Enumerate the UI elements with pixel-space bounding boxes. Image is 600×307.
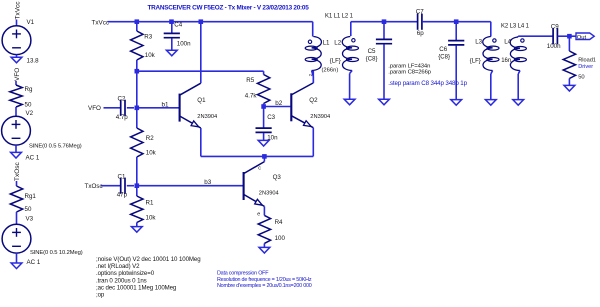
svg-text:Out: Out (577, 35, 587, 41)
svg-text:V3: V3 (26, 216, 34, 223)
capacitor C9 (series output) (552, 28, 554, 44)
svg-text:;ac dec 100001 1Meg 100Meg: ;ac dec 100001 1Meg 100Meg (96, 284, 176, 291)
svg-text:{C8}: {C8} (366, 57, 378, 63)
svg-text:6p: 6p (417, 30, 424, 37)
svg-text:TxVcc: TxVcc (92, 19, 110, 26)
svg-text:10k: 10k (145, 52, 156, 59)
wire C9 to out node (558, 35, 570, 37)
svg-text:Rload1: Rload1 (578, 58, 596, 64)
svg-text:100: 100 (275, 235, 286, 242)
svg-text:R5: R5 (246, 77, 254, 84)
wire C2 to node b1 (127, 107, 134, 109)
ground below C3 (258, 140, 269, 146)
phase dot L3 (493, 39, 496, 42)
transistor Q1 (179, 94, 181, 122)
wire TxVcc rail (108, 21, 313, 23)
svg-text:47p: 47p (117, 192, 128, 199)
svg-text:b3: b3 (204, 179, 212, 186)
svg-text:b1: b1 (162, 101, 170, 108)
wire Q3 collector to emitter rail (263, 156, 265, 161)
svg-text:{LF}: {LF} (470, 59, 481, 65)
ground below C5 (379, 99, 390, 105)
wire Q2 collector to L1 (312, 71, 314, 83)
wire L2 bottom to ground (350, 71, 353, 74)
resistor R2 (136, 108, 138, 128)
svg-text:2N3904: 2N3904 (197, 114, 217, 120)
svg-text:Driver: Driver (578, 64, 593, 70)
capacitor C6 (455, 22, 457, 41)
resistor Rload1 (568, 36, 570, 51)
svg-text:Data compression OFF: Data compression OFF (217, 271, 269, 277)
node on rail at C4 (169, 19, 174, 24)
svg-text:10n: 10n (267, 135, 278, 142)
svg-text:C5: C5 (368, 48, 376, 55)
svg-text:16n: 16n (501, 58, 511, 64)
wire b3 to Q3 base (137, 185, 243, 187)
svg-text:K1 L1 L2 1: K1 L1 L2 1 (325, 13, 354, 19)
ground below L4 (513, 100, 524, 106)
wire Rg to V2 (15, 107, 17, 116)
svg-text:Q2: Q2 (309, 97, 318, 104)
svg-text:C2: C2 (118, 96, 126, 103)
svg-text:C6: C6 (439, 46, 447, 53)
capacitor C7 (series) (417, 14, 419, 30)
wire b2 to Q2 base (264, 106, 291, 108)
node at output (567, 34, 572, 39)
wire Q1 emitter down (200, 128, 202, 156)
resistor Rg (10, 85, 22, 107)
ground below V2 (11, 152, 22, 158)
svg-text:V2: V2 (26, 110, 34, 117)
svg-text:C7: C7 (416, 9, 424, 16)
svg-text:K2 L3 L4 1: K2 L3 L4 1 (501, 24, 530, 30)
transistor Q3 (243, 172, 245, 200)
svg-text:TxVcc: TxVcc (14, 1, 21, 20)
inductor L4 (517, 36, 519, 37)
resistor Rg1 (10, 186, 22, 212)
svg-text:50: 50 (25, 206, 32, 213)
wire V2 bottom stub (15, 145, 17, 152)
wire C1 to node b3 (127, 185, 134, 187)
ground below V3 (11, 263, 22, 269)
svg-text:.param C8=266p: .param C8=266p (388, 69, 431, 75)
node on rail at Q1 collector (199, 19, 204, 24)
svg-text:13.8: 13.8 (27, 57, 40, 64)
svg-text:b2: b2 (275, 100, 283, 107)
svg-text:.step param C8 344p 348p 1p: .step param C8 344p 348p 1p (388, 80, 467, 87)
resistor R4 (258, 215, 270, 243)
svg-text:{C8}: {C8} (438, 55, 450, 61)
node b1 (135, 106, 140, 111)
wire Q1 collector to rail (200, 22, 202, 83)
node on rail at R3 (135, 19, 140, 24)
wire V1 bottom stub (16, 55, 18, 58)
svg-text:SINE(0 0.5 10.2Meg): SINE(0 0.5 10.2Meg) (30, 250, 83, 256)
resistor R5 (263, 71, 265, 74)
svg-text:c: c (258, 165, 261, 171)
wire L4 bottom to ground (518, 71, 520, 75)
ground below C4 (166, 50, 177, 56)
node emitter junction (262, 154, 267, 159)
svg-text:L4: L4 (504, 39, 511, 46)
svg-text:R1: R1 (146, 200, 154, 207)
phase dot L4 (521, 39, 524, 42)
svg-text:50: 50 (578, 75, 584, 81)
wire bias rail to R5 (137, 70, 264, 72)
svg-text:(266n): (266n) (322, 67, 339, 73)
svg-text:.tran 0 200us 0 1ns: .tran 0 200us 0 1ns (96, 277, 147, 284)
svg-text:e: e (257, 211, 260, 217)
svg-text:L1: L1 (323, 40, 330, 47)
svg-text:.options plotwinsize=0: .options plotwinsize=0 (96, 270, 155, 277)
capacitor C3 (263, 107, 265, 129)
wire node to Out flag (569, 35, 576, 37)
resistor R1 (136, 186, 138, 196)
svg-text:C3: C3 (267, 114, 275, 121)
wire Q2 emitter down (312, 128, 314, 157)
svg-text:2N3904: 2N3904 (259, 191, 279, 197)
resistor R3 (136, 22, 138, 31)
svg-text:4.7p: 4.7p (116, 114, 129, 121)
capacitor C1 (120, 178, 122, 194)
svg-text:R2: R2 (146, 135, 154, 142)
ground below L2 (344, 99, 355, 105)
node b2 (261, 104, 266, 109)
transistor Q2 (290, 93, 292, 121)
node at C6 (454, 19, 459, 24)
node b3 (135, 183, 140, 188)
svg-text:2N3904: 2N3904 (310, 114, 330, 120)
capacitor C2 (120, 100, 122, 116)
node at C5 (382, 19, 387, 24)
svg-text:Resolution de frequence = 1/20: Resolution de frequence = 1/20us = 50KHz (217, 277, 312, 283)
wire Q3 emitter to R4 (263, 206, 265, 215)
svg-text:VFO: VFO (14, 68, 21, 81)
svg-text:R4: R4 (275, 219, 283, 226)
capacitor C5 (383, 22, 385, 40)
svg-text:SINE(0 0.5 5.76Meg): SINE(0 0.5 5.76Meg) (29, 143, 82, 149)
svg-text:{LF}: {LF} (330, 59, 341, 65)
svg-text:;op: ;op (96, 292, 105, 299)
voltage source V3 (2, 224, 31, 253)
ground below L3 (485, 100, 496, 106)
svg-text:Q3: Q3 (273, 174, 282, 181)
wire L2 to C7 (351, 21, 418, 23)
ground below C6 (451, 100, 462, 106)
svg-text:V1: V1 (27, 19, 35, 26)
svg-text:.net I(RLoad) V2: .net I(RLoad) V2 (96, 263, 140, 270)
wire V1 top stub (16, 20, 18, 27)
capacitor C4 (171, 22, 173, 34)
svg-text:R3: R3 (144, 34, 152, 41)
svg-text:4.7k: 4.7k (245, 92, 258, 99)
wire VFO to Rg (15, 81, 17, 85)
wire emitter rail Q1-Q2 (201, 155, 313, 157)
svg-text:Nombre d'exemples = 20us/0.1ns: Nombre d'exemples = 20us/0.1ns=200 000 (217, 283, 312, 289)
node R3 bottom / bias (135, 69, 140, 74)
svg-text:C9: C9 (551, 23, 559, 30)
svg-text:L2: L2 (334, 40, 341, 47)
wire rail corner down to L1 (312, 22, 314, 37)
wire V3 bottom stub (16, 253, 18, 263)
phase dot L2 (352, 39, 355, 42)
svg-text:Q1: Q1 (197, 97, 206, 104)
svg-text:50: 50 (25, 101, 32, 108)
ground below V1 (11, 57, 22, 63)
inductor L1 (312, 37, 322, 71)
voltage source V2 (2, 116, 31, 145)
wire bias node down to b1 (136, 71, 138, 108)
wire b1 to Q1 base (137, 107, 179, 109)
svg-text:C1: C1 (118, 173, 126, 180)
wire TxOsc to Rg1 (16, 181, 18, 186)
svg-text:;noise V(Out) V2 dec 10001 10: ;noise V(Out) V2 dec 10001 10 100Meg (96, 256, 201, 263)
svg-text:Rg: Rg (25, 86, 33, 93)
inductor L2 (350, 22, 352, 36)
svg-text:Rg1: Rg1 (25, 193, 37, 200)
svg-text:C4: C4 (174, 21, 182, 28)
svg-text:100n: 100n (177, 41, 191, 48)
phase dot L1 (308, 40, 311, 43)
svg-text:10k: 10k (146, 215, 157, 222)
wire L4 top to C9 (518, 35, 553, 37)
svg-text:VFO: VFO (88, 105, 101, 112)
wire Rg1 to V3 (16, 212, 18, 224)
svg-text:AC 1: AC 1 (27, 259, 41, 266)
svg-text:TxOsc: TxOsc (14, 161, 21, 181)
svg-text:.param LF=434n: .param LF=434n (388, 63, 430, 69)
inductor L3 (483, 37, 493, 71)
svg-text:10k: 10k (146, 150, 157, 157)
wire C7 to L3 (422, 21, 491, 23)
ground below Rload1 (564, 85, 575, 91)
svg-text:AC 1: AC 1 (26, 155, 40, 162)
svg-text:TRANSCEIVER CW F5EOZ - Tx Mixe: TRANSCEIVER CW F5EOZ - Tx Mixer - V 23/0… (148, 4, 310, 11)
wire rail corner down to L3 (490, 22, 492, 37)
voltage source V1 (2, 26, 31, 55)
svg-text:TxOsc: TxOsc (85, 183, 103, 190)
svg-text:100n: 100n (547, 43, 561, 50)
ground below R1 (131, 227, 142, 233)
net flag Out (576, 33, 594, 40)
svg-text:L3: L3 (475, 39, 482, 46)
ground below R4 (259, 247, 270, 253)
